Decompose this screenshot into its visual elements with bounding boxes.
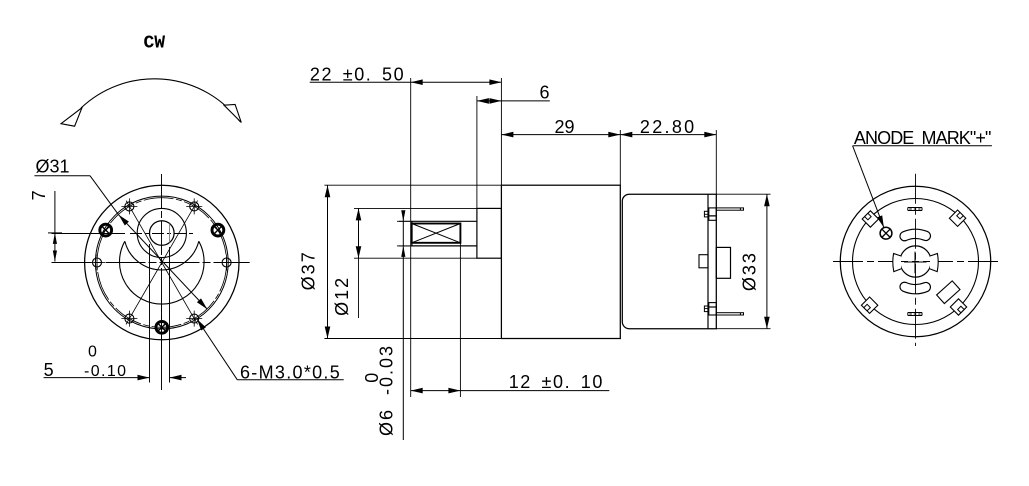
29-dim arrow left — [501, 132, 513, 138]
M3 mounting hole at 60 deg — [186, 198, 202, 214]
29-dim extension at gearbox rear — [619, 130, 621, 185]
svg-text:5: 5 — [44, 360, 54, 380]
hole centerline spoke bottom-left — [126, 263, 162, 325]
CW arc left open arrowhead — [61, 108, 82, 127]
5-dim tolerance -0.10 — [84, 363, 127, 380]
CW arc right open arrowhead — [224, 104, 241, 122]
M3 mounting hole at 300 deg — [186, 311, 202, 327]
M3 mounting hole at 180 deg — [89, 255, 105, 271]
M3 mounting hole at 120 deg — [121, 198, 137, 214]
5-dim dimension line — [44, 377, 150, 379]
anode leader — [853, 146, 884, 228]
boss top extension line — [354, 207, 477, 209]
anode leader arrow — [877, 215, 884, 227]
front view horizontal centerline — [52, 262, 250, 264]
Ø12 arrow up — [356, 208, 362, 220]
Ø6 -0.03 label — [377, 344, 397, 436]
svg-text:Ø6 -0.03: Ø6 -0.03 — [377, 344, 397, 436]
top terminal strip — [716, 208, 743, 210]
top terminal clip — [704, 211, 708, 217]
hatched pin hole at 30 deg — [212, 224, 224, 236]
rear bottom terminal slot — [908, 313, 922, 316]
5-dim upper tolerance 0 — [88, 344, 97, 361]
svg-text:22.80: 22.80 — [640, 117, 697, 137]
svg-text:-0.10: -0.10 — [84, 363, 127, 380]
6 label — [540, 83, 550, 103]
shaft top line — [411, 220, 477, 222]
bearing right wing — [930, 254, 938, 272]
dimension 22 ±0.50 line — [310, 81, 502, 83]
22-dim arrow left — [411, 79, 423, 85]
anode underline — [853, 145, 992, 147]
Ø33 extension top — [716, 193, 770, 195]
22 ±0.50 label — [310, 64, 405, 84]
6-M3 leader — [197, 319, 237, 380]
crescent cutout — [120, 241, 205, 304]
shaft bottom line — [411, 245, 477, 247]
bottom terminal clip — [704, 306, 708, 312]
7 label — [29, 190, 49, 200]
12 ±0.10 label — [509, 372, 604, 392]
dimension Ø6 line — [402, 212, 404, 440]
Ø37 arrow down — [325, 327, 331, 339]
bottom terminal base block — [709, 303, 717, 315]
rear top terminal slot — [908, 208, 922, 211]
M3 mounting hole at 0 deg — [219, 255, 235, 271]
hole centerline spoke bottom-right — [162, 263, 198, 325]
Ø31 label — [36, 157, 70, 177]
22-dim extension at shaft tip — [410, 78, 412, 397]
12-dim arrow right — [448, 388, 460, 394]
dimension 22.80 line — [620, 134, 716, 136]
shaft Ø6 extension top — [399, 220, 411, 222]
5-dim extension right — [169, 247, 171, 383]
rear tab SE — [950, 299, 966, 315]
gearbox face plate bottom extension — [324, 338, 501, 340]
boss bottom extension line — [354, 257, 477, 259]
7-dim arrow up — [53, 233, 57, 244]
7-dim extension line at shaft center — [52, 233, 126, 235]
svg-text:Ø31: Ø31 — [36, 157, 70, 177]
boss Ø12 side rect — [477, 208, 502, 258]
shaft tip line — [411, 221, 413, 246]
29 label — [555, 117, 575, 137]
Ø33 extension bottom — [716, 328, 770, 330]
rear tab SW — [861, 297, 877, 313]
shaft boss circle Ø12 — [137, 208, 186, 257]
7-dim dimension line — [54, 191, 56, 262]
Ø12 arrow down — [356, 246, 362, 258]
22.80-dim arrow left — [620, 132, 632, 138]
dimension 12 ±0.10 line — [411, 390, 610, 392]
dimension Ø37 line — [327, 185, 329, 338]
7-dim arrow down — [53, 251, 57, 262]
svg-text:0: 0 — [362, 373, 382, 383]
7-dim tick top — [48, 232, 62, 234]
bottom terminal strip — [716, 313, 743, 315]
12-dim arrow left — [411, 388, 423, 394]
5-dim arrow right — [170, 375, 182, 381]
end cap bushing — [716, 247, 730, 278]
rear outer circle — [840, 186, 990, 336]
dimension Ø33 line — [766, 194, 768, 329]
CW rotation arc — [81, 79, 240, 122]
rear view vertical centerline — [915, 174, 917, 346]
5-dim right tail — [170, 377, 187, 379]
6-M3.0*0.5 label — [240, 362, 341, 382]
6-dim extension at boss face — [476, 96, 478, 208]
M3 mounting hole at 240 deg — [121, 311, 137, 327]
svg-text:Ø37: Ø37 — [299, 250, 319, 290]
hole centerline spoke top-left — [126, 201, 162, 263]
front view centerline lower extension — [161, 300, 163, 390]
gearbox face plate top extension — [324, 184, 501, 186]
22-dim extension at gearbox face — [500, 78, 502, 185]
motor end cap line — [707, 194, 709, 329]
dimension 6 line — [477, 100, 550, 102]
top terminal base block — [709, 208, 717, 220]
hatched pin hole at 270 deg — [156, 321, 168, 333]
5-dim extension left — [149, 244, 151, 383]
svg-text:ANODE MARK"+": ANODE MARK"+" — [854, 128, 991, 148]
5-dim arrow left — [138, 375, 150, 381]
Ø33 arrow up — [764, 194, 770, 206]
shaft horizontal centerline — [130, 233, 193, 235]
12-dim extension right — [459, 243, 461, 397]
6-dim arrow right — [489, 98, 501, 104]
Ø33 arrow down — [764, 317, 770, 329]
brush cap square — [699, 255, 708, 268]
22.80-dim arrow right — [704, 132, 716, 138]
Ø37 label — [299, 250, 319, 290]
rear view horizontal centerline — [833, 261, 1000, 263]
anode mark symbol — [880, 227, 892, 239]
Ø31 diameter line — [119, 215, 208, 309]
CW label — [144, 34, 166, 54]
Ø6 tick top — [397, 220, 410, 222]
rear tab NW — [862, 211, 878, 227]
hole centerline spoke top-right — [162, 201, 198, 263]
22.80-dim extension at motor rear — [715, 130, 717, 194]
gearbox outer circle — [85, 185, 239, 339]
upper brush window — [900, 229, 931, 240]
Ø31 leader underline — [34, 175, 90, 177]
output shaft circle Ø6 — [150, 221, 175, 246]
6-M3 leader arrow — [197, 319, 206, 331]
bolt circle Ø31 — [97, 198, 227, 328]
rear connector plate SE — [937, 281, 960, 304]
Ø31 arrow upper — [119, 215, 129, 226]
rear tab NE — [949, 210, 965, 226]
Ø31 arrow lower — [197, 298, 207, 309]
svg-text:CW: CW — [144, 34, 166, 54]
svg-text:Ø33: Ø33 — [740, 251, 760, 291]
svg-text:22 ±0. 50: 22 ±0. 50 — [310, 64, 405, 84]
22.80 label — [640, 117, 697, 137]
lower brush window — [900, 282, 931, 293]
svg-text:7: 7 — [29, 190, 49, 200]
5 label — [44, 360, 54, 380]
Ø12 label — [332, 276, 352, 316]
Ø6 upper tolerance 0 — [362, 373, 382, 383]
gearbox inner circle — [95, 196, 228, 329]
front view vertical centerline — [161, 174, 163, 352]
29-dim arrow right — [608, 132, 620, 138]
6-dim arrow left — [477, 98, 489, 104]
motor can body — [622, 194, 716, 329]
hatched pin hole at 150 deg — [100, 224, 112, 236]
dimension 29 line — [501, 134, 620, 136]
Ø6 tick bottom — [397, 245, 410, 247]
rear bearing crosshair — [904, 252, 927, 274]
svg-text:6: 6 — [540, 83, 550, 103]
dimension Ø12 line — [358, 208, 360, 318]
svg-text:0: 0 — [88, 344, 97, 361]
svg-text:Ø12: Ø12 — [332, 276, 352, 316]
ANODE MARK label — [854, 128, 991, 148]
bearing left wing — [893, 254, 901, 272]
rear inner circle — [853, 199, 979, 325]
rear bearing circle — [900, 246, 931, 277]
svg-text:29: 29 — [555, 117, 575, 137]
Ø37 arrow up — [325, 185, 331, 197]
svg-text:12 ±0. 10: 12 ±0. 10 — [509, 372, 604, 392]
Ø6 arrow down to shaft top — [401, 210, 405, 221]
shaft D-flat edge — [169, 224, 171, 243]
Ø33 label — [740, 251, 760, 291]
Ø31 leader connector — [90, 176, 119, 215]
gearbox body rect — [501, 185, 620, 338]
shaft flat knurl box — [412, 224, 461, 243]
shaft Ø6 extension bottom — [399, 245, 411, 247]
Ø6 arrow up to shaft bottom — [401, 246, 405, 257]
22-dim arrow right — [489, 79, 501, 85]
6-M3 underline — [237, 379, 343, 381]
